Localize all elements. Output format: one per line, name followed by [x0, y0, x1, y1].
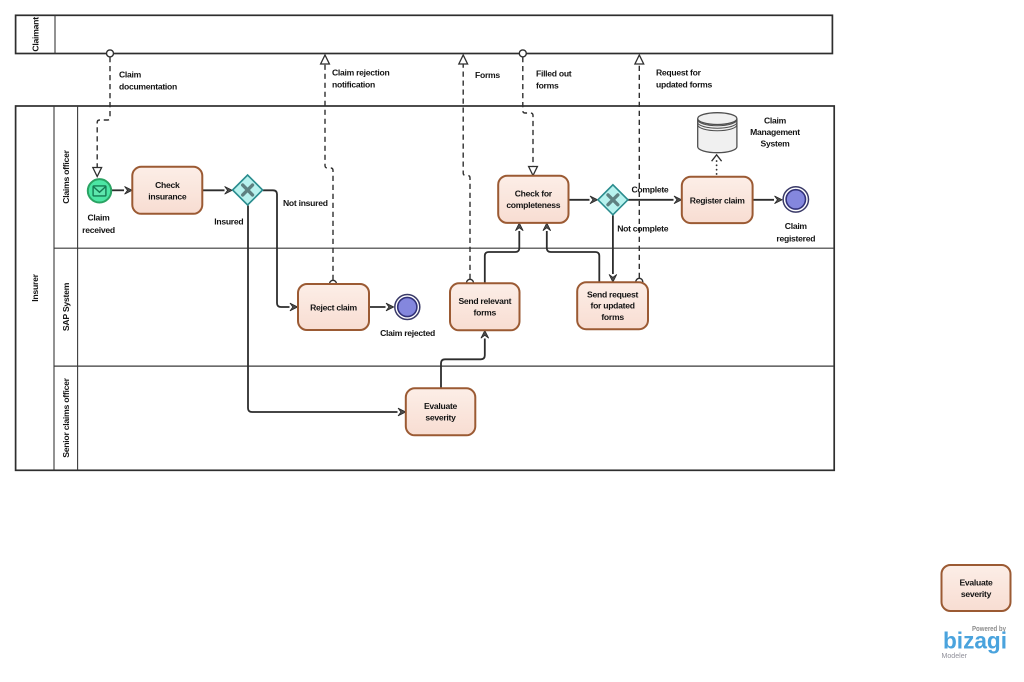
- svg-text:severity: severity: [425, 413, 456, 423]
- task Register claim: [682, 177, 753, 223]
- svg-text:Evaluate: Evaluate: [959, 578, 993, 588]
- svg-text:for updated: for updated: [591, 301, 635, 311]
- message flow Filled out forms: [519, 50, 537, 176]
- svg-text:notification: notification: [332, 80, 375, 90]
- wire G1 Not insured to Reject claim: [263, 190, 290, 307]
- svg-text:severity: severity: [961, 589, 992, 599]
- gateway G2 exclusive: [598, 185, 628, 215]
- wire Reject claim to end event Claim rejected: [369, 306, 386, 308]
- task Send request for updated forms: [577, 282, 648, 329]
- svg-text:Filled out: Filled out: [536, 69, 572, 79]
- task Check insurance: [132, 167, 202, 214]
- svg-text:Insurer: Insurer: [30, 273, 40, 301]
- svg-text:insurance: insurance: [148, 191, 187, 201]
- svg-text:Claim rejected: Claim rejected: [380, 328, 435, 338]
- svg-text:Claim: Claim: [764, 116, 787, 126]
- wire G1 Insured down to Evaluate severity: [248, 206, 398, 413]
- svg-text:bizagi: bizagi: [943, 628, 1007, 654]
- label message Claim rejection notification: [332, 68, 389, 90]
- wire G2 Not complete down to Send request for updated forms: [612, 215, 614, 274]
- lane Claims officer: [54, 149, 834, 248]
- label message Claim documentation: [119, 70, 177, 92]
- svg-text:Claimant: Claimant: [31, 17, 41, 52]
- pool Insurer: [16, 106, 835, 470]
- svg-text:documentation: documentation: [119, 82, 177, 92]
- svg-text:Insured: Insured: [214, 217, 243, 227]
- label message Filled out forms: [536, 69, 572, 91]
- svg-text:Request for: Request for: [656, 68, 702, 78]
- gateway G1 exclusive: [233, 175, 263, 205]
- svg-text:Claims officer: Claims officer: [61, 149, 71, 203]
- wire G2 Complete to Register claim: [628, 199, 674, 201]
- svg-text:Management: Management: [750, 127, 800, 137]
- label Claim Management System: [750, 116, 800, 149]
- svg-text:Modeler: Modeler: [942, 651, 968, 660]
- wire Send request for updated forms up to Check for completeness: [547, 231, 600, 282]
- pool Claimant: [16, 15, 833, 53]
- message flow Forms: [459, 55, 474, 286]
- svg-text:Complete: Complete: [632, 185, 669, 195]
- message flow Request for updated forms: [635, 55, 644, 285]
- svg-text:Send request: Send request: [587, 289, 638, 299]
- data store Claim Management System: [698, 113, 737, 153]
- svg-text:Not insured: Not insured: [283, 198, 328, 208]
- svg-text:Not complete: Not complete: [617, 224, 669, 234]
- lane Senior claims officer: [61, 377, 71, 457]
- svg-text:Send relevant: Send relevant: [458, 296, 511, 306]
- association Register claim to data store: [712, 155, 722, 174]
- svg-text:forms: forms: [536, 81, 559, 91]
- message flow Claim rejection notification: [321, 55, 337, 287]
- svg-text:Claim: Claim: [87, 213, 110, 223]
- label message Request for updated forms: [656, 68, 713, 90]
- svg-text:Evaluate: Evaluate: [424, 401, 458, 411]
- svg-text:registered: registered: [776, 233, 815, 243]
- end event Claim registered: [783, 187, 808, 212]
- svg-text:Check: Check: [155, 180, 180, 190]
- floating task Evaluate severity (palette ghost): [942, 565, 1011, 611]
- svg-text:forms: forms: [601, 312, 624, 322]
- svg-text:Register claim: Register claim: [690, 195, 745, 205]
- wire start event to Check insurance: [112, 189, 124, 191]
- svg-text:received: received: [82, 225, 115, 235]
- svg-text:Claim: Claim: [785, 221, 808, 231]
- svg-text:completeness: completeness: [506, 200, 560, 210]
- svg-text:Claim rejection: Claim rejection: [332, 68, 389, 78]
- label Claim registered: [776, 221, 815, 244]
- task Send relevant forms: [450, 283, 520, 330]
- svg-text:Reject claim: Reject claim: [310, 303, 357, 313]
- end event Claim rejected: [395, 295, 420, 320]
- svg-text:updated forms: updated forms: [656, 80, 713, 90]
- task Check for completeness: [498, 176, 568, 223]
- bizagi logo: [942, 626, 1008, 660]
- wire Register claim to end event Claim registered: [753, 199, 774, 201]
- svg-text:System: System: [761, 139, 791, 149]
- task Evaluate severity: [406, 388, 476, 435]
- svg-text:Senior claims officer: Senior claims officer: [61, 377, 71, 457]
- wire Check for completeness to gateway G2: [569, 199, 590, 201]
- wire Send relevant forms up to Check for completeness: [485, 231, 520, 283]
- label Claim received: [82, 213, 115, 236]
- wire Evaluate severity up to Send relevant forms: [441, 339, 485, 389]
- start event Claim received (message): [88, 179, 111, 202]
- svg-text:Check for: Check for: [515, 189, 553, 199]
- svg-text:Forms: Forms: [475, 70, 500, 80]
- lane SAP System: [54, 282, 834, 366]
- wire Check insurance to gateway G1: [202, 189, 224, 191]
- message flow Claim documentation: [93, 50, 114, 177]
- svg-text:Claim: Claim: [119, 70, 142, 80]
- svg-text:forms: forms: [474, 308, 497, 318]
- svg-text:SAP System: SAP System: [61, 282, 71, 331]
- task Reject claim: [298, 284, 369, 330]
